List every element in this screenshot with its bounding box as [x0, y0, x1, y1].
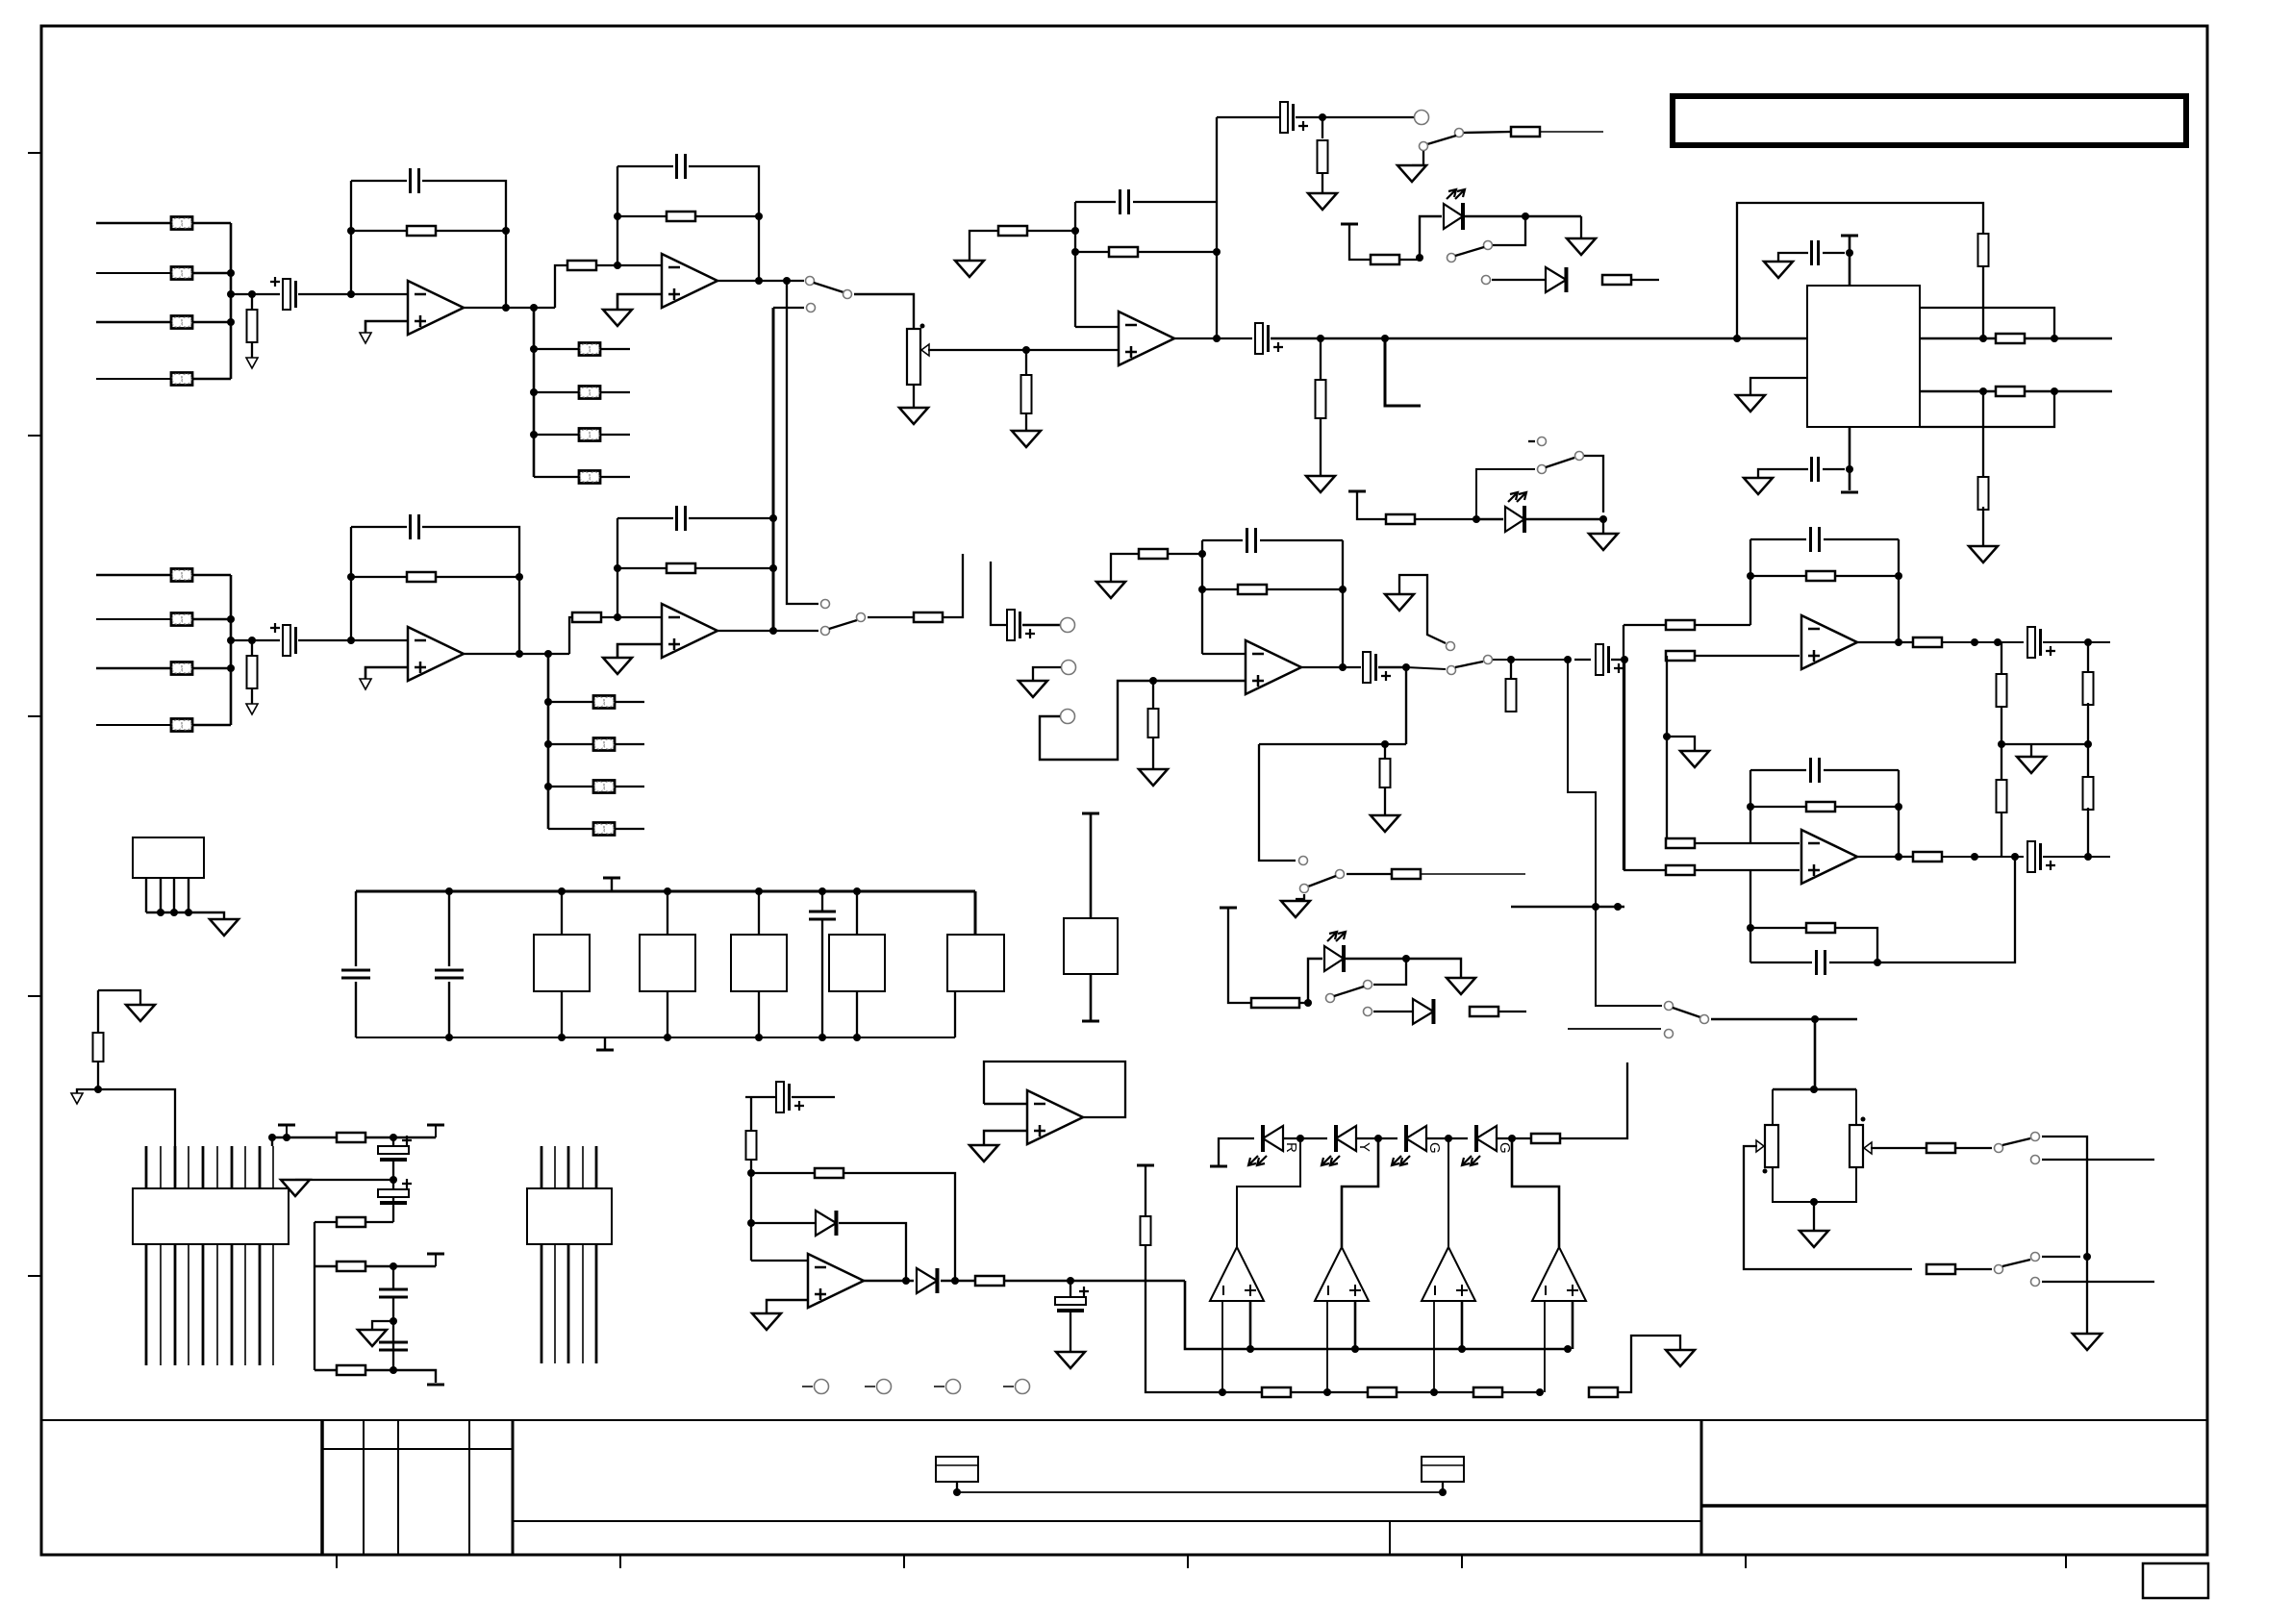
- junction comp+ 1409: [1351, 1345, 1359, 1353]
- capacitor CH3 feedback: [1811, 527, 1820, 552]
- ground LEDA: [1567, 238, 1596, 255]
- A3 output vertical: [1216, 117, 1218, 338]
- A3 minus vertical: [1074, 202, 1076, 327]
- junction LEDB2 node: [1473, 515, 1480, 523]
- CN1 bottom pin 3: [174, 1244, 177, 1365]
- wire LEDA gnd: [1580, 216, 1582, 238]
- ground P4: [358, 1330, 387, 1346]
- resistor RP1: [93, 1033, 104, 1062]
- RH1 stem: [1510, 660, 1512, 679]
- wire SL1 diode: [1492, 279, 1546, 281]
- resistor RM6: [1589, 1387, 1618, 1397]
- op-amp B1: [408, 627, 464, 681]
- ground RA9: [1012, 431, 1041, 447]
- HP A drop: [1568, 660, 1662, 1006]
- B3 rail to switch: [1406, 667, 1446, 669]
- switch SL2 lever: [1546, 458, 1574, 467]
- jack B gnd: [1062, 661, 1076, 675]
- junction HP B join: [1592, 903, 1599, 911]
- comp4 - drop: [1544, 1301, 1546, 1392]
- ref chain wire: [1145, 1245, 1540, 1392]
- rail P1 right: [365, 1137, 436, 1138]
- terminal dash 2: [865, 1386, 875, 1387]
- LED DA1: [1444, 189, 1465, 230]
- wire SA1 alt to link bus: [773, 307, 804, 309]
- wire CB4 to jack: [1022, 624, 1060, 626]
- junction bridge bottom: [1810, 1198, 1818, 1206]
- junction A1 out fb: [502, 304, 510, 312]
- resistor RH6: [1666, 838, 1695, 848]
- comparator M1: [1210, 1247, 1264, 1301]
- junction B mute tap: [1381, 740, 1389, 748]
- supply stub P1: [278, 1124, 295, 1127]
- B3 fb res rail right: [1267, 588, 1343, 590]
- peak fb res rail: [751, 1172, 815, 1174]
- switch SL1 b: [1482, 276, 1491, 285]
- bottom margin tick 1: [336, 1555, 338, 1568]
- capacitor CK2: [1055, 1287, 1089, 1312]
- wire SB2 to res: [1347, 873, 1392, 875]
- ground SB2: [1281, 901, 1310, 917]
- ground A3 input res: [955, 261, 984, 277]
- junction A3 out: [1213, 335, 1221, 342]
- bridge gnd stem: [1813, 1202, 1815, 1231]
- LEDB2 wire: [1476, 518, 1503, 520]
- B1 fb cap rail left: [351, 526, 407, 528]
- junction DM2: [1374, 1135, 1382, 1142]
- junction bank top b4: [853, 887, 861, 895]
- junction B1 fb res right: [516, 573, 523, 581]
- HPA minus2 rail: [1667, 842, 1800, 844]
- switch SA1 common: [806, 277, 815, 286]
- junction B2 minus node: [614, 613, 621, 621]
- P3 stub: [435, 1254, 437, 1266]
- resistor RL4: [1251, 998, 1299, 1008]
- capacitor CP4: [378, 1136, 412, 1162]
- net wire F1-F2: [957, 1491, 1443, 1493]
- ground bridge: [1800, 1231, 1828, 1247]
- junction A post bus 3: [530, 431, 538, 438]
- bank box 2 stem bottom: [667, 991, 668, 1037]
- wire P4 left: [314, 1266, 315, 1370]
- H2 out wire: [1857, 856, 1913, 858]
- A3 gnd res wire: [969, 231, 998, 261]
- B2 + input wire: [617, 644, 661, 658]
- diode DK2: [917, 1268, 937, 1293]
- A3 fb cap rail right: [1133, 201, 1217, 203]
- ground CK2: [1056, 1352, 1085, 1368]
- stub XT bottom: [1082, 1020, 1099, 1023]
- wire RA12 bottom: [1322, 173, 1323, 193]
- comp4 + drop: [1572, 1301, 1574, 1349]
- switch SH1 gnd throw: [1447, 642, 1455, 651]
- potentiometer VB2: [1850, 1125, 1872, 1167]
- wire A post 1: [534, 348, 579, 350]
- ground ref chain: [1666, 1350, 1695, 1366]
- HPA gnd tap wire: [1667, 737, 1695, 751]
- HPA fb3 return: [1877, 857, 2015, 962]
- wire LEDB2 gnd: [1602, 519, 1604, 534]
- U1 vcc cap rail: [1823, 252, 1845, 254]
- jumper link JA5: [579, 343, 600, 356]
- bridge left side: [1772, 1089, 1774, 1125]
- supply stub U1 top: [1841, 235, 1858, 237]
- CN1 bottom pin 2: [160, 1244, 162, 1365]
- capacitor CB2 feedback: [411, 514, 419, 539]
- LED DM1 red: [1248, 1125, 1299, 1165]
- junction A post bus 2: [530, 388, 538, 396]
- switch SO2 common: [1995, 1265, 2003, 1274]
- resistor RB9: [914, 612, 943, 622]
- junction bank bot b2: [664, 1034, 671, 1041]
- potentiometer VA1: [907, 329, 929, 385]
- bank box 5 stem bottom: [954, 991, 956, 1037]
- wire SA2 gnd: [1412, 151, 1423, 165]
- wire P2 left: [314, 1222, 315, 1266]
- wire RA13 out: [1540, 131, 1603, 133]
- resistor RA11 feedback: [1109, 247, 1138, 257]
- H2 out rail: [1942, 856, 2024, 858]
- wire RA5 top: [251, 294, 253, 310]
- left margin tick 1: [28, 152, 41, 154]
- junction LEDB2 cathode: [1599, 515, 1607, 523]
- B2 output wire: [718, 630, 818, 632]
- wire RB10 top: [1152, 681, 1154, 710]
- ground RA12: [1308, 193, 1337, 210]
- terminal T4: [1016, 1380, 1030, 1394]
- jumper link JA7: [579, 429, 600, 441]
- switch SO2 a: [2031, 1253, 2040, 1262]
- capacitor CB5 feedback: [1247, 528, 1256, 553]
- signal ground power: [71, 1093, 83, 1104]
- junction HP tap2: [1564, 656, 1572, 663]
- resistor RB8 feedback: [667, 563, 695, 573]
- A3 output wire: [1174, 337, 1252, 339]
- wire JB3 to bus: [192, 667, 231, 670]
- wire RU4 bottom: [1982, 507, 1984, 546]
- resistor RH2: [1666, 620, 1695, 630]
- B1 fb res rail right: [436, 576, 519, 578]
- capacitor CU1 decoupling: [1812, 240, 1819, 265]
- CN1 bottom pin 7: [231, 1244, 234, 1365]
- B mute rail: [1259, 743, 1406, 745]
- capacitor CP2 bank: [435, 970, 464, 978]
- capacitor CP1 bank: [341, 970, 370, 978]
- bridge right bottom: [1814, 1167, 1856, 1202]
- K1 out wire: [864, 1280, 914, 1283]
- signal ground B input: [246, 704, 258, 714]
- connector CN1: [133, 1188, 289, 1244]
- A3 fb cap rail: [1075, 201, 1116, 203]
- CN1 bottom pin 10: [272, 1244, 274, 1365]
- junction LEDB cathode: [1402, 955, 1410, 962]
- jumper link JA8: [579, 471, 600, 484]
- junction bank top b1: [558, 887, 566, 895]
- LEDA anode vertical: [1420, 216, 1442, 258]
- switch SB1 lever: [829, 620, 857, 629]
- dot VB1 mark: [1763, 1169, 1768, 1174]
- resistor RB5 shunt: [247, 656, 258, 688]
- B2 fb res rail right: [695, 567, 773, 569]
- junction U2 bus 2: [170, 909, 178, 916]
- junction U1 vcc: [1846, 249, 1853, 257]
- resistor RU2: [1996, 334, 2025, 343]
- junction A1 fb res left: [347, 227, 355, 235]
- wire CA1 to A1: [298, 293, 408, 295]
- capacitor CB4 rec out: [1007, 610, 1035, 640]
- H2 out rail 2: [2043, 856, 2110, 858]
- junction CA5 out: [1319, 113, 1326, 121]
- H1 out wire: [1857, 641, 1913, 643]
- junction B bus 2: [227, 637, 235, 644]
- junction H1 rail b: [1994, 638, 2001, 646]
- junction A bus 1: [227, 269, 235, 277]
- junction SO out: [2083, 1253, 2091, 1261]
- capacitor CP6: [379, 1289, 408, 1297]
- junction A2 out link: [783, 277, 791, 285]
- jumper link JB1: [171, 569, 192, 582]
- bottom margin tick 6: [1745, 1555, 1747, 1568]
- resistor RL3: [1386, 514, 1415, 524]
- junction P1 b: [283, 1134, 290, 1141]
- ground B3 input res: [1096, 582, 1125, 598]
- A1 fb cap rail left: [351, 180, 407, 182]
- resistor RB12 feedback: [1238, 585, 1267, 594]
- junction B post bus 3: [544, 783, 552, 790]
- jumper link JA1: [171, 217, 192, 230]
- channel A post bus: [533, 308, 536, 477]
- wire RA7 to A2 minus: [596, 264, 661, 266]
- bank cap 2 stem top: [448, 891, 450, 966]
- junction HPA fb1 right: [1895, 572, 1902, 580]
- ground A2 +: [603, 310, 632, 326]
- stub XT top: [1082, 812, 1099, 815]
- chain A top: [2001, 642, 2002, 674]
- HP rail 3: [1493, 659, 1568, 661]
- switch SA1 throw: [843, 290, 852, 299]
- resistor RL1: [1371, 255, 1399, 264]
- junction B2 out: [769, 627, 777, 635]
- resistor RA8 feedback: [667, 212, 695, 221]
- ground RB10: [1139, 769, 1168, 786]
- channel A input bus: [230, 223, 233, 379]
- capacitor CA1 input: [270, 277, 297, 310]
- wire RA9 top: [1025, 350, 1027, 375]
- junction DM4: [1508, 1135, 1516, 1142]
- bottom margin tick 5: [1461, 1555, 1463, 1568]
- HP rail 5: [1611, 659, 1624, 661]
- wire power gnd arrow: [77, 1089, 98, 1093]
- terminal A top out: [1415, 111, 1429, 125]
- A1 output wire: [464, 307, 555, 309]
- resistor RU4: [1978, 477, 1989, 510]
- supply stub P2: [427, 1124, 444, 1127]
- junction H1 rail a: [1971, 638, 1978, 646]
- junction ref 3: [1430, 1388, 1438, 1396]
- meter led rail 3: [1426, 1137, 1468, 1139]
- title divider 2: [1700, 1420, 1703, 1555]
- VB1 wiper wire: [1744, 1146, 1912, 1269]
- CN2 bottom pin 5: [595, 1244, 598, 1363]
- P1 drop: [271, 1137, 273, 1146]
- peak diode1 rail: [751, 1222, 816, 1224]
- junction A node: [248, 290, 256, 298]
- input wire INB2: [96, 618, 171, 620]
- switch SL3 lever: [1334, 987, 1364, 996]
- junction K1 out: [902, 1277, 910, 1285]
- wire SL3 diode: [1373, 1011, 1413, 1012]
- resistor RA6 feedback: [407, 226, 436, 236]
- ground chains: [2017, 757, 2046, 773]
- switch SH2 common: [1700, 1015, 1709, 1024]
- HPA fb1 vertical: [1750, 539, 1751, 625]
- ground RA14: [1306, 476, 1335, 492]
- wire SB2 gnd: [1296, 894, 1304, 899]
- junction LEDB node: [1304, 999, 1312, 1007]
- junction bank bot b1: [558, 1034, 566, 1041]
- capacitor CB1 input: [270, 623, 297, 656]
- CP6 stem: [392, 1266, 394, 1289]
- VB2 wiper wire: [1871, 1147, 1926, 1149]
- wire B post 3 out: [615, 786, 644, 787]
- comparator M2: [1315, 1247, 1369, 1301]
- input wire INB3: [96, 667, 171, 670]
- title table vline 533: [512, 1420, 515, 1555]
- CN2 top pin 3: [567, 1146, 570, 1188]
- junction A1 fb res right: [502, 227, 510, 235]
- rail P4: [315, 1370, 436, 1383]
- supply stub bank bottom: [596, 1049, 614, 1052]
- balance feed: [1814, 1019, 1817, 1089]
- junction U1 out2 b: [2051, 387, 2058, 395]
- HP amp in drop: [1624, 660, 1625, 870]
- title table hline: [322, 1448, 513, 1450]
- switch SB2 throw: [1336, 870, 1345, 879]
- wire B post 4 out: [615, 828, 644, 830]
- A3 minus input wire: [1075, 326, 1118, 328]
- wire jack gnd: [1033, 667, 1061, 681]
- B3 + rail: [1153, 680, 1245, 682]
- supply stub U1 bottom: [1841, 491, 1858, 494]
- title table vline 378: [363, 1420, 365, 1555]
- A1 + input wire: [365, 321, 408, 333]
- junction A2 fb res left: [614, 212, 621, 220]
- junction DM1: [1297, 1135, 1304, 1142]
- junction HP Bx: [1614, 903, 1622, 911]
- jumper link JB8: [593, 823, 615, 836]
- wire RP1 top: [97, 990, 99, 1033]
- HPA fb2 res rail: [1750, 806, 1806, 808]
- CN1 top pin 6: [216, 1146, 218, 1188]
- junction B post bus 2: [544, 740, 552, 748]
- U2 pin 2: [160, 878, 162, 912]
- op-amp H1: [1801, 615, 1857, 669]
- resistor RP2: [337, 1133, 365, 1142]
- wire RL1 to node: [1399, 259, 1420, 261]
- chain mid rail: [2001, 743, 2088, 745]
- capacitor CU2 decoupling: [1812, 457, 1819, 482]
- ref chain end: [1618, 1336, 1680, 1392]
- meter led rail 1: [1283, 1137, 1327, 1139]
- junction LEDA cathode: [1522, 212, 1529, 220]
- junction A rail loop: [1733, 335, 1741, 342]
- CN1 top pin 3: [174, 1146, 177, 1188]
- wire SL2 down: [1584, 456, 1603, 512]
- switch SH1 out: [1484, 656, 1493, 664]
- capacitor CE3 block: [731, 935, 787, 991]
- switch SL2 common: [1538, 465, 1547, 474]
- net flag F2 stem: [1442, 1482, 1444, 1492]
- switch SO1 a: [2031, 1133, 2040, 1141]
- input wire INB4: [96, 724, 171, 726]
- junction A1 inverting node: [347, 290, 355, 298]
- CN2 top pin 1: [541, 1146, 543, 1188]
- HP lower throw wire: [1568, 1028, 1661, 1030]
- title mid vline: [1389, 1521, 1391, 1555]
- ground buffer: [969, 1145, 998, 1162]
- wire LEDB2 supply: [1357, 491, 1386, 519]
- channel B input bus: [230, 575, 233, 725]
- capacitor CA4 feedback: [1120, 189, 1129, 214]
- comp - drop 2: [1326, 1301, 1328, 1392]
- CN1 bottom pin 5: [202, 1244, 205, 1365]
- junction A2 fb res right: [755, 212, 763, 220]
- junction B3 out: [1339, 663, 1347, 671]
- IC input loop: [1737, 203, 1983, 338]
- bottom margin tick 4: [1187, 1555, 1189, 1568]
- stereo link bus right: [787, 281, 818, 604]
- capacitor CA6 output: [1255, 323, 1283, 354]
- junction F1: [953, 1488, 961, 1496]
- junction P4 mid: [390, 1317, 397, 1325]
- resistor RH4 feedback: [1806, 571, 1835, 581]
- XT top wire: [1090, 813, 1093, 918]
- CN1 top pin 7: [231, 1146, 234, 1188]
- HPA mid vertical: [1666, 656, 1668, 843]
- capacitor CH6: [1817, 950, 1825, 975]
- capacitor CH4 out: [2027, 627, 2055, 658]
- switch SL1 lever: [1455, 247, 1484, 256]
- wire RA9 bottom: [1025, 413, 1027, 431]
- cap bank bottom rail: [356, 1037, 955, 1038]
- U1 vee cap gnd: [1758, 469, 1808, 478]
- wire RU4 top: [1982, 391, 1984, 480]
- resistor RU1: [1978, 234, 1989, 266]
- bank cap 2 stem bottom: [448, 982, 450, 1037]
- ground P mid: [281, 1180, 310, 1196]
- bank box 3 stem bottom: [758, 991, 760, 1037]
- junction A2 out fb: [755, 277, 763, 285]
- op-amp K1: [808, 1254, 864, 1308]
- junction comp4 +: [1564, 1345, 1572, 1353]
- junction U1 out1 a: [1979, 335, 1987, 342]
- switch SL2 a: [1575, 452, 1584, 461]
- B3 out rail: [1378, 667, 1406, 744]
- CN1 bottom pin 9: [259, 1244, 262, 1365]
- resistor RH11: [1997, 674, 2007, 707]
- junction peak cap: [1067, 1277, 1074, 1285]
- HPA fb1 res right: [1835, 575, 1899, 577]
- HPA fb1 cap right: [1824, 538, 1899, 540]
- U1 bottom pin: [1849, 427, 1851, 490]
- bank box 3 stem top: [758, 891, 760, 935]
- junction B bus 1: [227, 615, 235, 623]
- LED DB2: [1324, 932, 1346, 972]
- switch SH1 lever: [1455, 662, 1483, 667]
- switch SH2 throw a: [1665, 1002, 1674, 1011]
- B3 output wire: [1301, 666, 1361, 668]
- comp + drop 1300: [1249, 1301, 1252, 1349]
